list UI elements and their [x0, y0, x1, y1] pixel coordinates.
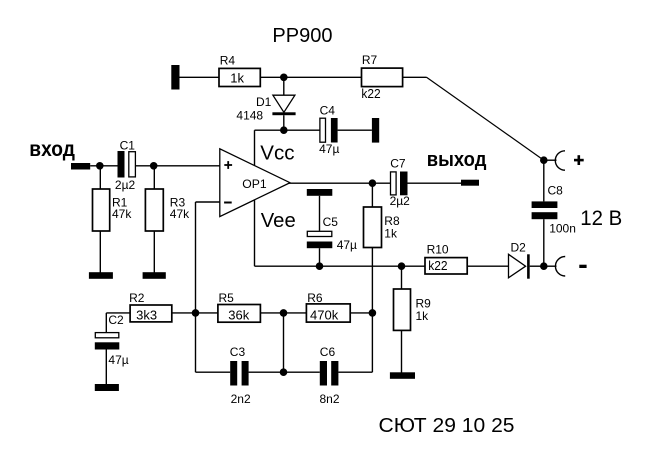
svg-text:47k: 47k	[170, 207, 190, 221]
wire input to C1	[90, 165, 117, 167]
svg-text:C5: C5	[323, 215, 339, 229]
svg-text:47µ: 47µ	[337, 238, 357, 252]
svg-text:R6: R6	[307, 291, 323, 305]
wire Vee rail	[255, 265, 426, 267]
wire C7 to output terminal	[408, 182, 462, 184]
svg-text:100n: 100n	[549, 222, 576, 236]
svg-text:1k: 1k	[416, 309, 430, 323]
svg-text:C2: C2	[108, 313, 124, 327]
wire C4 to terminal	[338, 129, 372, 131]
wire Vcc horizontal	[255, 129, 320, 131]
wire R4 to R7	[260, 76, 361, 78]
resistor R7	[361, 53, 402, 101]
svg-text:C3: C3	[230, 345, 246, 359]
svg-text:R4: R4	[220, 54, 236, 68]
terminal (signal input)	[71, 163, 90, 170]
wire R2 left to C2	[106, 313, 130, 332]
svg-text:R7: R7	[362, 53, 378, 67]
wire C1 to op-amp plus input	[136, 165, 220, 167]
wire to minus terminal	[544, 265, 557, 267]
wire R5 to R6	[260, 312, 306, 314]
plus sign	[574, 155, 584, 165]
wire R8 bottom (crosses Vee rail, down to C6 wire)	[371, 248, 373, 373]
terminal (Vcc rail end)	[372, 118, 379, 143]
svg-text:OP1: OP1	[242, 177, 267, 191]
wire R6 to R8 column	[350, 312, 372, 314]
wire C6 to R8 column	[338, 371, 372, 373]
svg-text:вход: вход	[29, 138, 75, 161]
wire Vee drop from op-amp	[254, 200, 256, 267]
capacitor C3	[230, 345, 251, 406]
wire R8 top	[371, 183, 373, 207]
wire C8 to minus node	[543, 219, 545, 266]
svg-text:C4: C4	[320, 104, 336, 118]
svg-text:4148: 4148	[236, 109, 263, 123]
svg-text:47µ: 47µ	[108, 353, 128, 367]
terminal (plus, arc)	[555, 151, 565, 170]
terminal (top-left input to R4)	[171, 65, 179, 90]
svg-text:СЮТ 29 10 25: СЮТ 29 10 25	[379, 415, 515, 437]
svg-text:1k: 1k	[230, 70, 244, 85]
junction dot (input/R1)	[96, 162, 104, 170]
svg-text:8n2: 8n2	[320, 392, 340, 406]
resistor R3	[145, 166, 190, 273]
svg-text:47k: 47k	[112, 207, 132, 221]
wire Vcc drop to op-amp	[254, 130, 256, 166]
resistor R2	[129, 291, 172, 322]
junction dot (C3/C6 node)	[280, 368, 288, 376]
wire R10 to D2	[467, 265, 508, 267]
junction dot (R4/D1 node)	[280, 74, 288, 82]
junction dot (R5/R6 node)	[280, 309, 288, 317]
svg-text:R2: R2	[129, 291, 145, 305]
wire output	[289, 182, 390, 184]
resistor R8	[364, 207, 400, 248]
wire R5/R6 node down to C3/C6 node	[283, 313, 285, 372]
capacitor C7	[390, 157, 411, 209]
wire C3 to C6	[249, 371, 320, 373]
svg-text:C7: C7	[390, 157, 406, 171]
diode D1	[236, 77, 295, 130]
wire R2 to node	[172, 312, 218, 314]
svg-text:3k3: 3k3	[136, 307, 157, 322]
junction dot (C5/Vee rail)	[316, 262, 324, 270]
svg-text:k22: k22	[361, 86, 380, 101]
svg-text:2n2: 2n2	[231, 392, 251, 406]
svg-text:Vee: Vee	[261, 210, 296, 232]
resistor R5	[218, 291, 261, 322]
capacitor C6	[320, 345, 340, 406]
capacitor C4	[319, 104, 339, 156]
op-amp OP1	[220, 149, 290, 217]
svg-text:1k: 1k	[384, 226, 398, 240]
svg-text:C6: C6	[320, 345, 336, 359]
ground (R3)	[143, 272, 166, 279]
svg-text:470k: 470k	[310, 307, 339, 322]
junction dot (R8/R6 node)	[369, 309, 377, 317]
junction dot (R2/R5 node)	[192, 309, 200, 317]
svg-text:выход: выход	[427, 148, 487, 171]
junction dot (output node)	[369, 179, 377, 187]
svg-text:2µ2: 2µ2	[390, 194, 411, 208]
resistor R4	[219, 54, 260, 87]
svg-text:36k: 36k	[228, 307, 249, 322]
capacitor C1	[115, 139, 136, 193]
junction dot (R9/Vee rail)	[398, 262, 406, 270]
ground (C2)	[95, 384, 119, 391]
svg-text:R5: R5	[219, 291, 235, 305]
svg-text:47µ: 47µ	[319, 142, 339, 156]
svg-text:12 В: 12 В	[580, 207, 622, 230]
junction dot (C1/R3 node)	[150, 162, 158, 170]
resistor R1	[93, 166, 133, 273]
resistor R10	[425, 243, 467, 274]
wire D2 to minus node	[530, 265, 544, 267]
svg-text:PP900: PP900	[272, 25, 332, 47]
capacitor C5	[307, 189, 357, 266]
wire op-amp minus input	[196, 201, 220, 203]
svg-text:Vcc: Vcc	[260, 143, 294, 165]
minus sign	[579, 265, 586, 268]
svg-text:D2: D2	[511, 240, 527, 254]
wire R7 right	[403, 76, 427, 78]
svg-text:D1: D1	[256, 95, 272, 109]
junction dot (plus node)	[540, 156, 548, 164]
terminal (minus, arc)	[555, 257, 565, 277]
wire bottom row to C3	[196, 371, 231, 373]
wire feedback vertical (minus input down to bottom row)	[195, 202, 197, 372]
capacitor C8	[532, 184, 576, 236]
svg-text:C1: C1	[120, 139, 136, 153]
ground (R9)	[390, 372, 415, 379]
junction dot (D1/C4 node)	[280, 126, 288, 134]
svg-text:C8: C8	[548, 184, 564, 198]
terminal (signal output)	[461, 180, 479, 186]
resistor R6	[306, 291, 350, 322]
svg-text:k22: k22	[428, 258, 447, 273]
wire to plus terminal	[544, 159, 557, 161]
diode D2	[509, 240, 530, 278]
junction dot (minus node)	[540, 262, 548, 270]
resistor R9	[394, 266, 432, 372]
wire diagonal to plus terminal	[427, 77, 544, 160]
svg-text:R10: R10	[427, 243, 449, 257]
wire plus node to C8	[543, 160, 545, 201]
capacitor C2	[95, 313, 129, 384]
svg-text:2µ2: 2µ2	[115, 178, 136, 192]
wire terminal to R4	[180, 76, 220, 78]
ground (R1)	[89, 272, 113, 279]
